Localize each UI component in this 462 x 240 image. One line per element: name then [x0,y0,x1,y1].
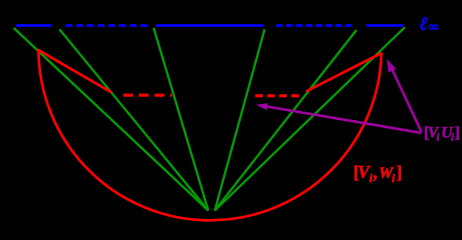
green edge G3: from T3 to BL [154,28,209,211]
label [Vi, Wi] (red) [354,162,403,185]
blue line at infinity: solid segment 2 [156,24,264,27]
red segment L to ML [38,50,112,93]
green edge G1: from line at infinity T1 to bottom vertex BL [14,28,209,211]
green edge G6: from T6 through vertex R to BR [215,27,405,210]
label l-infinity (blue) [420,14,439,35]
red geodesic arc [Vi,Wi] from L to R [39,49,382,220]
green edge G5: from T5 through junction MR to BR [215,30,357,211]
green edge G2: from T2 through junction ML to BL [60,29,209,210]
svg-text:]: ] [455,125,460,142]
svg-text:,: , [373,162,378,182]
svg-text:∞: ∞ [429,19,439,34]
red dashed horocycle segment left [123,94,172,97]
label [ViUi] (purple) [424,125,460,144]
svg-text:ℓ: ℓ [420,14,428,35]
svg-text:]: ] [396,162,402,182]
red segment MR to R [306,53,382,92]
purple arrow B to vertex R [392,68,422,132]
red dashed horocycle segment right [255,94,300,97]
blue line at infinity: solid segment 1 [16,24,52,27]
green edge G4: from T4 to bottom vertex BR [215,29,265,210]
blue line at infinity: solid segment 3 [367,24,404,27]
purple arrow A to right dashed segment [261,106,422,134]
blue line at infinity: dashed segment 2 [276,24,354,27]
blue line at infinity: dashed segment 1 [66,24,151,27]
